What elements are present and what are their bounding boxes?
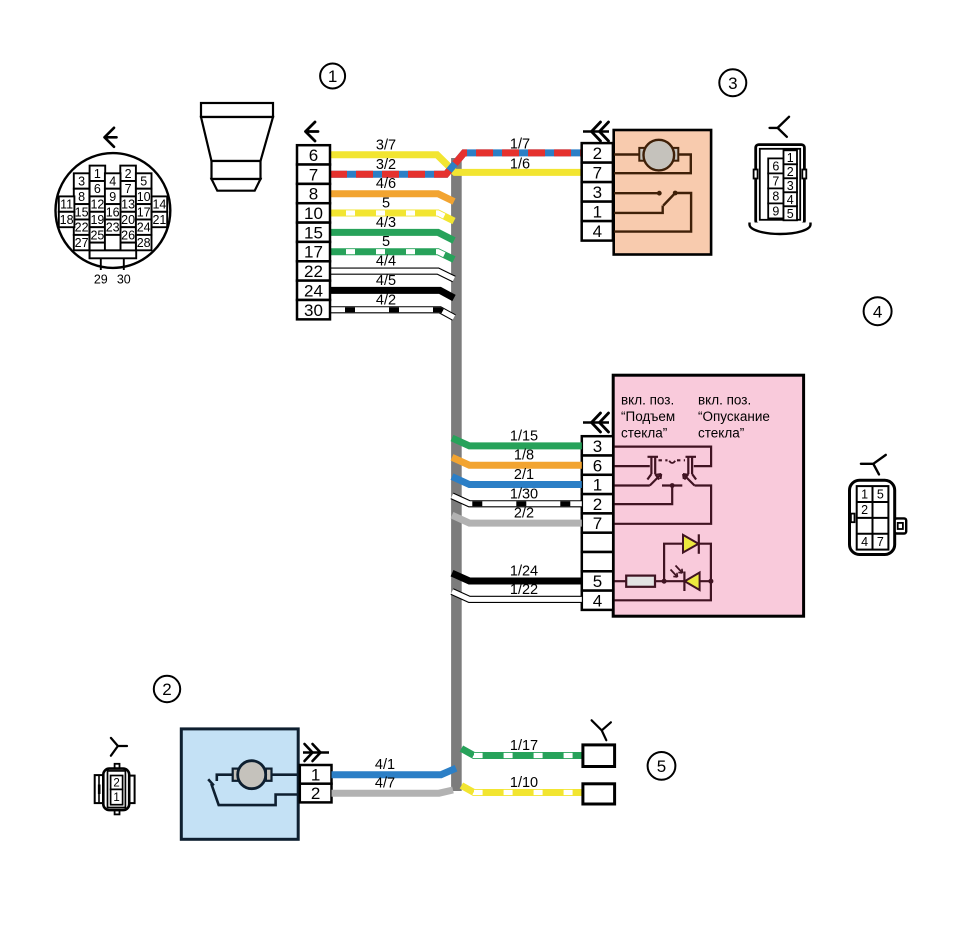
double chevron in-arrow (583, 130, 609, 133)
svg-text:5: 5 (877, 487, 884, 501)
svg-text:4: 4 (787, 193, 794, 207)
pin 4 (582, 221, 613, 241)
svg-text:“Опускание: “Опускание (698, 409, 770, 424)
svg-text:19: 19 (90, 213, 104, 227)
svg-text:стекла”: стекла” (621, 426, 667, 441)
svg-text:24: 24 (137, 221, 151, 235)
callout 2 (154, 676, 180, 702)
callout 3 (719, 69, 746, 96)
wire 2/2 gray (452, 515, 582, 523)
harness trunk (gray) (451, 158, 462, 791)
svg-text:3: 3 (593, 437, 602, 456)
terminal box (1/17) (583, 745, 615, 767)
svg-text:1: 1 (593, 476, 602, 495)
branch fork symbol (592, 720, 611, 740)
svg-text:29: 29 (94, 273, 108, 287)
svg-text:1/10: 1/10 (510, 775, 538, 791)
svg-text:21: 21 (152, 213, 166, 227)
svg-text:“Подъем: “Подъем (621, 409, 675, 424)
pin 25 (90, 227, 106, 242)
pin 1 (784, 150, 798, 164)
svg-text:3: 3 (78, 175, 85, 189)
svg-text:17: 17 (304, 243, 323, 262)
svg-text:стекла”: стекла” (698, 426, 744, 441)
pin 17 (136, 204, 152, 219)
svg-text:15: 15 (304, 223, 323, 242)
wire 1/24 black (452, 573, 582, 581)
motor M2 (233, 769, 239, 781)
pin 2 (784, 164, 798, 178)
svg-text:6: 6 (94, 182, 101, 196)
wire 1/30 white-black (452, 496, 582, 504)
pin 9 (105, 189, 121, 204)
pin 22 (297, 261, 330, 280)
svg-text:2: 2 (593, 144, 602, 163)
svg-text:3/7: 3/7 (376, 137, 396, 153)
wire 4/2 pin30 white-black (330, 310, 454, 318)
svg-text:4/3: 4/3 (376, 215, 396, 231)
svg-text:4: 4 (873, 302, 882, 321)
pin 10 (136, 189, 152, 204)
svg-text:5: 5 (140, 175, 147, 189)
wire 1/15 green (452, 438, 582, 446)
pin 1 (582, 475, 613, 494)
pin 18 (59, 212, 75, 227)
svg-text:15: 15 (75, 205, 89, 219)
svg-text:12: 12 (90, 198, 104, 212)
pin 21 (152, 212, 168, 227)
actuator (door motor+switch) box (614, 130, 711, 255)
pin 7 (582, 163, 613, 183)
window motor box (181, 729, 298, 839)
pin 17 (297, 242, 330, 261)
illumination circuit (613, 544, 711, 601)
pin 8 (297, 184, 330, 203)
wire 4/1 blue (332, 768, 457, 775)
wire 1/17 green-white (461, 749, 583, 756)
pin 20 (120, 212, 136, 227)
connector strip of switch (pins 3,6,1,2,7,-,-,5,4) (582, 413, 613, 610)
svg-text:24: 24 (304, 281, 323, 300)
svg-text:2: 2 (113, 778, 119, 790)
rubber boot (grommet) (201, 103, 273, 191)
wire 2/1 blue (452, 477, 582, 485)
svg-text:10: 10 (137, 190, 151, 204)
svg-text:22: 22 (75, 221, 89, 235)
svg-text:2/2: 2/2 (514, 506, 534, 522)
svg-text:4: 4 (109, 175, 116, 189)
svg-text:4/4: 4/4 (376, 254, 396, 270)
pin 1 (111, 789, 123, 804)
motor M1 (639, 148, 646, 161)
svg-text:18: 18 (60, 213, 74, 227)
svg-text:11: 11 (60, 198, 73, 212)
svg-text:5: 5 (593, 572, 602, 591)
pin 24 (136, 220, 152, 235)
svg-text:2: 2 (593, 495, 602, 514)
svg-text:1: 1 (311, 765, 320, 784)
resistor R (626, 576, 655, 587)
pin 8 (768, 188, 783, 203)
svg-text:8: 8 (309, 185, 318, 204)
pin 6 (768, 158, 783, 173)
svg-text:7: 7 (125, 182, 132, 196)
diode VD1 (683, 535, 699, 553)
pin 2 (111, 776, 123, 790)
svg-text:1/8: 1/8 (514, 448, 534, 464)
side tabs (754, 170, 758, 179)
svg-text:1/30: 1/30 (510, 486, 538, 502)
svg-text:2: 2 (125, 167, 132, 181)
direction arrow (306, 122, 319, 141)
svg-text:1/22: 1/22 (510, 582, 538, 598)
pin 7 (297, 165, 330, 184)
svg-text:8: 8 (78, 190, 85, 204)
svg-text:вкл. поз.: вкл. поз. (698, 393, 751, 408)
connector strip motor (pins 1,2) (300, 744, 332, 803)
svg-text:14: 14 (152, 198, 166, 212)
svg-text:9: 9 (109, 190, 116, 204)
window switch unit box (613, 375, 803, 616)
svg-text:1/17: 1/17 (510, 738, 538, 754)
text вкл. поз. Подъем стекла (621, 393, 675, 441)
pin 2 (582, 494, 613, 513)
svg-text:10: 10 (304, 204, 323, 223)
svg-text:7: 7 (772, 174, 779, 188)
motor internal wiring (208, 775, 300, 805)
pin 13 (120, 196, 136, 211)
svg-text:3: 3 (728, 74, 737, 93)
wire 4/4 pin22 white (330, 271, 454, 279)
pin 22 (74, 220, 90, 235)
svg-text:1/15: 1/15 (510, 428, 538, 444)
branch fork symbol (861, 455, 886, 475)
wire 1/10 yellow-white (461, 786, 583, 793)
branch fork symbol (770, 117, 789, 137)
pin 6 (90, 181, 106, 196)
pin 19 (90, 212, 106, 227)
terminal box (1/10) (583, 784, 615, 804)
pin 5 (784, 206, 798, 220)
svg-text:1: 1 (113, 792, 119, 804)
LED HL (685, 573, 700, 591)
pin 7 (768, 173, 783, 188)
pin 27 (74, 235, 90, 250)
svg-text:1: 1 (328, 67, 337, 86)
wire 5 pin17 green-white (330, 252, 454, 260)
svg-text:8: 8 (772, 189, 779, 203)
pin 2 (300, 784, 332, 803)
pin 10 (297, 203, 330, 222)
svg-text:4: 4 (593, 591, 602, 610)
pin 2 (582, 143, 613, 163)
pin 29 (100, 258, 102, 270)
svg-text:4/2: 4/2 (376, 292, 396, 308)
pin 1 (582, 202, 613, 222)
pin 28 (136, 235, 152, 250)
svg-text:5: 5 (382, 234, 390, 250)
svg-text:4/5: 4/5 (376, 273, 396, 289)
svg-text:3: 3 (593, 183, 602, 202)
pin 5 (136, 173, 152, 188)
connector icon 4 (7-pin face) (850, 455, 907, 555)
pin 4 (784, 192, 798, 206)
pin 3 (74, 173, 90, 188)
branch fork symbol (111, 738, 127, 756)
pin 23 (105, 220, 121, 235)
pin 15 (74, 204, 90, 219)
wire harness direction arrow (105, 128, 117, 147)
pin 12 (90, 196, 106, 211)
svg-text:17: 17 (137, 205, 151, 219)
svg-text:1: 1 (787, 151, 794, 165)
connector icon 3 (9-pin face) (750, 117, 811, 234)
svg-text:4: 4 (593, 222, 602, 241)
connector block 1 (pins 6-30) (297, 122, 330, 320)
connector icon 2 (2-pin face) (95, 738, 135, 814)
pin 30 (297, 300, 330, 319)
pin 11 (59, 196, 75, 211)
pin 1 (300, 765, 332, 784)
wire 1/22 white (452, 592, 582, 600)
pin 14 (152, 196, 168, 211)
svg-text:13: 13 (121, 198, 135, 212)
svg-text:4/6: 4/6 (376, 176, 396, 192)
svg-text:3/2: 3/2 (376, 157, 396, 173)
pin 16 (105, 204, 121, 219)
svg-text:2: 2 (162, 680, 171, 699)
pin 30 (123, 258, 125, 270)
svg-text:1/7: 1/7 (510, 137, 530, 153)
wire 4/7 gray (332, 790, 454, 793)
svg-text:23: 23 (106, 221, 120, 235)
bottom dish (750, 223, 811, 235)
svg-text:4/7: 4/7 (375, 776, 395, 792)
svg-text:26: 26 (121, 228, 135, 242)
svg-text:7: 7 (593, 514, 602, 533)
pin 3 (582, 436, 613, 455)
svg-text:5: 5 (382, 196, 390, 212)
pin 26 (120, 227, 136, 242)
wire 4/5 pin24 black (330, 290, 454, 298)
svg-text:16: 16 (106, 205, 120, 219)
pin 9 (768, 203, 783, 218)
pin 3 (582, 182, 613, 202)
pin 6 (582, 456, 613, 475)
double chevron out-arrow (303, 751, 329, 753)
svg-text:5: 5 (657, 757, 666, 776)
svg-text:2: 2 (861, 503, 868, 517)
svg-text:1/6: 1/6 (510, 157, 530, 173)
svg-text:5: 5 (787, 207, 794, 221)
pin 3 (784, 178, 798, 192)
svg-text:1/24: 1/24 (510, 564, 538, 580)
double chevron in-arrow (583, 421, 609, 424)
wire 3/2 / 1/7 blue-red (330, 153, 582, 174)
connector strip of actuator (pins 2,7,3,1,4) (582, 122, 613, 241)
svg-text:27: 27 (75, 236, 89, 250)
svg-text:2: 2 (787, 165, 794, 179)
svg-text:25: 25 (90, 228, 104, 242)
wire 5 pin10 yellow-white (330, 213, 454, 221)
svg-text:2: 2 (311, 784, 320, 803)
svg-text:4: 4 (861, 535, 868, 549)
svg-text:7: 7 (593, 163, 602, 182)
pin 7 (120, 181, 136, 196)
wire 4/6 pin8 orange (330, 194, 454, 202)
svg-text:3: 3 (787, 179, 794, 193)
pin 4 (582, 591, 613, 610)
pin 1 (90, 166, 106, 181)
pin 7 (582, 513, 613, 532)
callout 1 (320, 64, 345, 89)
text вкл. поз. Опускание стекла (698, 393, 770, 441)
svg-text:28: 28 (137, 236, 151, 250)
connector X1 (round 30-pin face view) (56, 128, 171, 287)
svg-text:1: 1 (861, 487, 868, 501)
pin 2 (120, 166, 136, 181)
svg-text:6: 6 (309, 146, 318, 165)
svg-text:1: 1 (593, 202, 602, 221)
motor M internal wiring (613, 155, 691, 232)
svg-text:20: 20 (121, 213, 135, 227)
pin 6 (297, 145, 330, 164)
svg-text:30: 30 (117, 273, 131, 287)
svg-text:4/1: 4/1 (375, 757, 395, 773)
svg-text:6: 6 (593, 456, 602, 475)
svg-text:вкл. поз.: вкл. поз. (621, 393, 674, 408)
wire 1/8 orange (452, 457, 582, 465)
svg-text:6: 6 (772, 159, 779, 173)
svg-text:30: 30 (304, 301, 323, 320)
side lug (895, 518, 907, 533)
wire 4/3 pin15 green (330, 232, 454, 240)
pin 4 (105, 173, 121, 188)
svg-text:22: 22 (304, 262, 323, 281)
callout 4 (864, 297, 892, 325)
wire 3/7 pin6 yellow (330, 155, 582, 173)
pin 8 (74, 189, 90, 204)
svg-text:9: 9 (772, 204, 779, 218)
svg-text:1: 1 (94, 167, 101, 181)
rocker switch internals (613, 447, 711, 524)
svg-text:7: 7 (877, 535, 884, 549)
callout 5 (648, 752, 676, 780)
pin 15 (297, 223, 330, 242)
pin 5 (582, 571, 613, 590)
pin 24 (297, 281, 330, 300)
svg-text:2/1: 2/1 (514, 467, 534, 483)
svg-text:7: 7 (309, 165, 318, 184)
